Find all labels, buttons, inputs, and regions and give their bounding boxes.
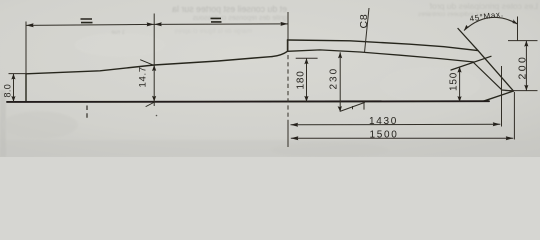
svg-text:grille des reponses ci-dessous: grille des reponses ci-dessous bbox=[192, 15, 287, 22]
dimension line first equal segment bbox=[26, 24, 154, 25]
extension line right at x=288 (solid upper part) bbox=[287, 12, 289, 52]
dimension line 200 bbox=[525, 41, 527, 91]
svg-text:1500: 1500 bbox=[370, 129, 399, 140]
bleed-through text top middle bbox=[111, 4, 287, 36]
label 8.0 bbox=[3, 84, 13, 98]
svg-text:180: 180 bbox=[296, 70, 307, 89]
stray dot near x=156 bbox=[156, 115, 158, 117]
label 1500 bbox=[370, 129, 399, 140]
fillet curve into step bbox=[272, 51, 288, 56]
bottom rising edge to tip bbox=[483, 91, 514, 101]
label 45 Max bbox=[469, 9, 504, 23]
dimension line 230 bbox=[339, 52, 341, 112]
svg-text:230: 230 bbox=[329, 67, 340, 90]
oblique reference line across tip bbox=[451, 56, 491, 70]
extension line top bbox=[508, 40, 538, 42]
small tick above 1430 line bbox=[352, 106, 354, 109]
dimension line 180 bbox=[306, 58, 308, 101]
label 200 bbox=[517, 55, 529, 80]
C8 leader line bbox=[365, 8, 370, 53]
left end edge bbox=[25, 74, 27, 102]
label 180 bbox=[296, 70, 307, 89]
svg-text:marge de la figure ci-apres: marge de la figure ci-apres bbox=[174, 28, 252, 35]
dashed centre mark below profile at x=87 bbox=[86, 106, 88, 121]
vertical extension line for angle bbox=[517, 17, 519, 42]
dimension line 150 bbox=[459, 67, 461, 102]
paper background bbox=[0, 0, 540, 158]
arrows 1430 bbox=[291, 122, 501, 127]
label 230 bbox=[329, 67, 340, 90]
label 1430 bbox=[369, 116, 398, 127]
arrow right at x=288 bbox=[281, 22, 289, 26]
svg-text:Les cotes principales du prof: Les cotes principales du prof bbox=[429, 1, 538, 11]
dimension line 1430 bbox=[291, 123, 501, 126]
equals label 2 bbox=[211, 18, 222, 22]
extension line left (above profile corner) bbox=[25, 22, 27, 74]
dimension line 8.0 bbox=[13, 74, 15, 102]
svg-text:1 rue: 1 rue bbox=[111, 30, 125, 36]
svg-text:14.7: 14.7 bbox=[138, 66, 149, 87]
arc arrow right bbox=[512, 19, 517, 24]
upper top line (right section) bbox=[288, 40, 479, 51]
dimension line 1500 bbox=[291, 137, 514, 139]
svg-text:150: 150 bbox=[449, 72, 460, 91]
top edge (left tapered section) bbox=[26, 57, 272, 74]
right extension line for 1430 bbox=[501, 66, 503, 127]
extension line top bbox=[9, 73, 27, 75]
bleed-through text top right bbox=[418, 1, 538, 18]
dimension line second equal segment bbox=[154, 23, 288, 26]
extension line mid at x=154 bbox=[153, 14, 155, 107]
extension line x=288 lower solid part bbox=[287, 121, 289, 147]
svg-text:C8: C8 bbox=[358, 13, 370, 28]
extension line x=288 dashed through profile bbox=[287, 55, 289, 121]
label 14.7 bbox=[138, 66, 149, 87]
arc arrow left bbox=[464, 25, 470, 31]
arrow left at x=26 bbox=[26, 23, 34, 27]
svg-text:et du conseil est portee sur l: et du conseil est portee sur la bbox=[172, 4, 287, 14]
label 150 bbox=[449, 72, 460, 91]
arrows 180 bbox=[304, 58, 308, 101]
arrows 14.7 bbox=[152, 65, 156, 102]
arrows 1500 bbox=[291, 136, 514, 140]
svg-text:1430: 1430 bbox=[369, 116, 398, 127]
short level line bbox=[296, 57, 318, 59]
angle arc bbox=[464, 17, 518, 30]
arrows 200 bbox=[524, 41, 528, 91]
label C8 bbox=[358, 13, 370, 28]
equals label 1 bbox=[81, 19, 93, 23]
right extension line for 1500 bbox=[513, 92, 515, 140]
leader stub below profile near 230 bbox=[341, 102, 365, 112]
lower chamfer line (right section) bbox=[288, 50, 475, 62]
arrows 230 bbox=[338, 52, 343, 112]
far edge of cut face bbox=[473, 62, 514, 91]
svg-text:200: 200 bbox=[517, 55, 529, 80]
extension line bottom bbox=[506, 90, 538, 92]
svg-text:8.0: 8.0 bbox=[3, 84, 13, 98]
45 degree cut edge (extended above profile) bbox=[458, 29, 514, 92]
arrow flourish strokes 14.7 bbox=[141, 60, 155, 107]
bottom edge bbox=[7, 100, 489, 103]
arrows 150 bbox=[457, 67, 461, 102]
arrow pair at x=154 bbox=[147, 22, 162, 26]
step vertical edge bbox=[287, 40, 289, 51]
arrows 8.0 bbox=[11, 74, 15, 102]
